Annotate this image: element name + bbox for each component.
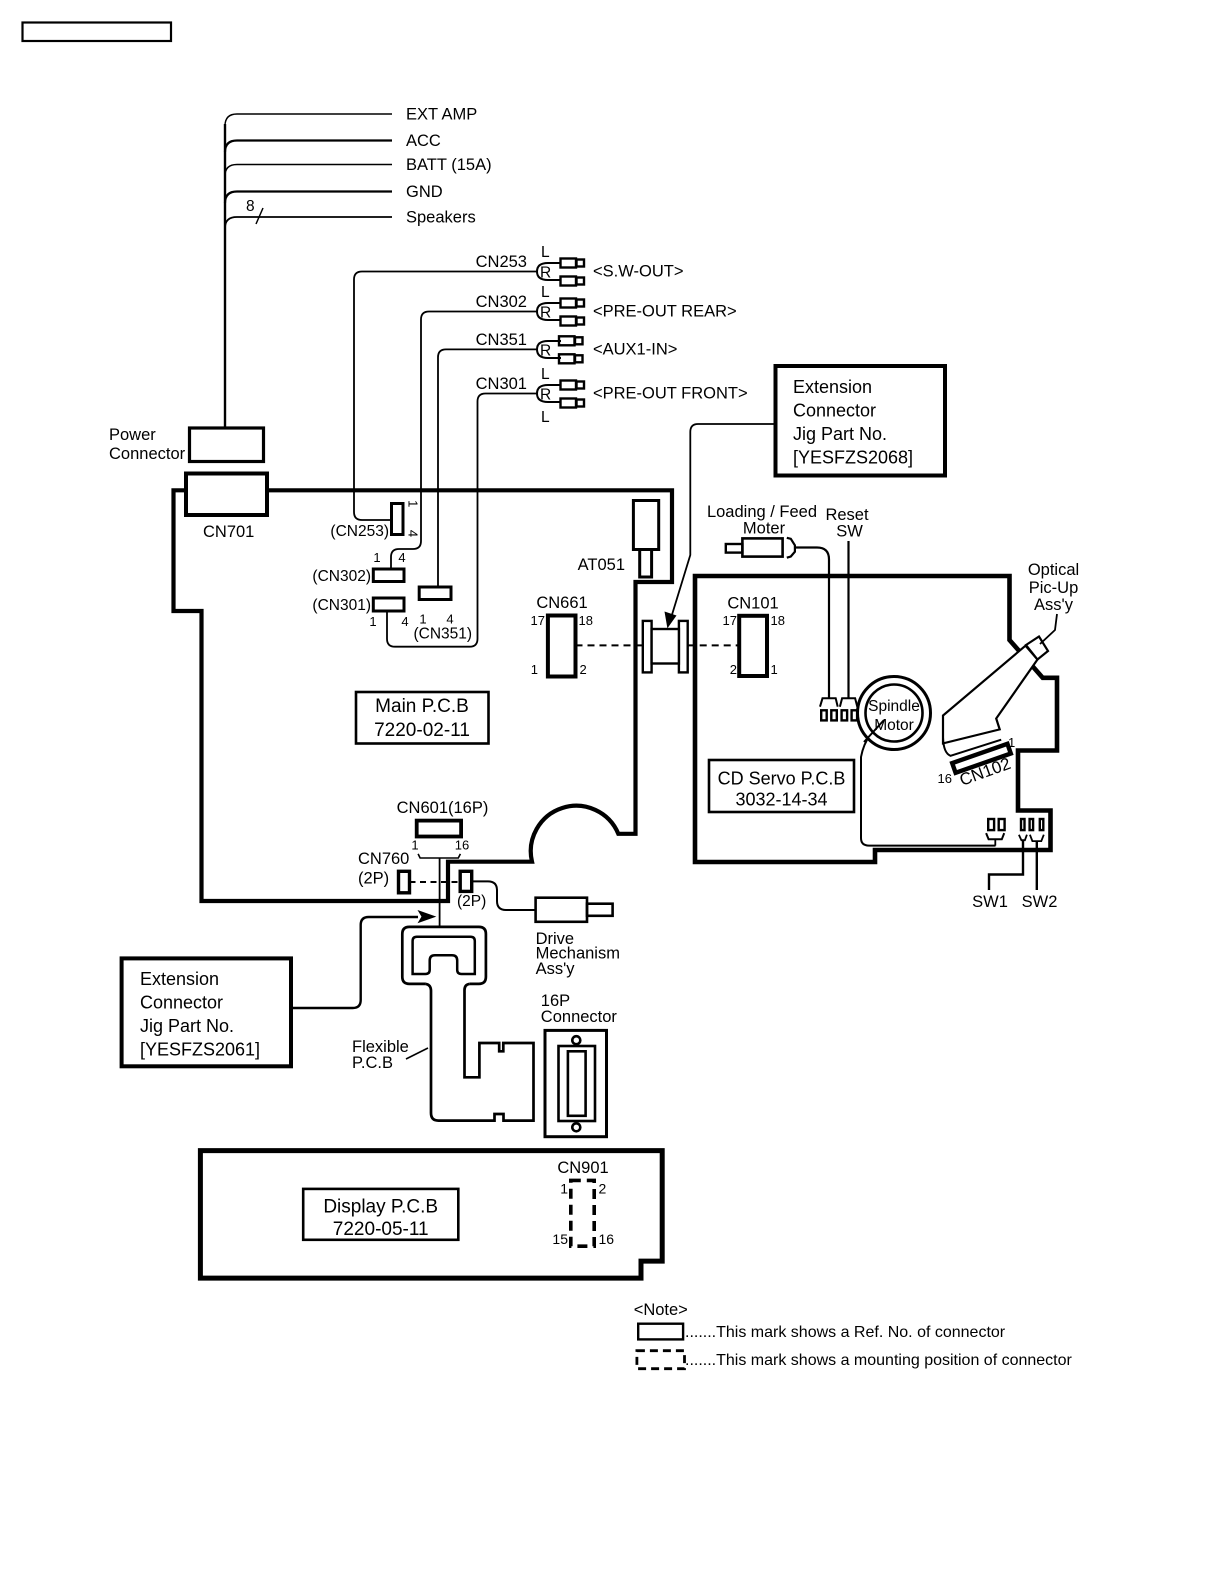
connector CN253 jacks [476, 244, 684, 286]
wire SW2 [1036, 841, 1038, 890]
connector CN102 [952, 744, 1011, 773]
svg-text:SW2: SW2 [1022, 893, 1058, 911]
svg-text:CN253: CN253 [476, 253, 527, 271]
connector CN302 jacks [476, 284, 737, 326]
svg-text:1: 1 [411, 838, 418, 853]
svg-text:R: R [540, 305, 551, 322]
svg-text:[YESFZS2068]: [YESFZS2068] [793, 448, 913, 468]
svg-text:EXT AMP: EXT AMP [406, 106, 477, 124]
svg-text:CN701: CN701 [203, 523, 254, 541]
svg-text:(CN301): (CN301) [312, 597, 371, 614]
svg-text:1: 1 [405, 500, 420, 507]
svg-text:SW1: SW1 [972, 893, 1008, 911]
svg-text:BATT (15A): BATT (15A) [406, 156, 492, 174]
connector (2P) mounting [460, 871, 472, 891]
svg-text:<PRE-OUT REAR>: <PRE-OUT REAR> [593, 303, 737, 321]
16P connector symbol [545, 1030, 607, 1136]
wire CN601 to flexible pcb [439, 858, 441, 928]
svg-text:ACC: ACC [406, 132, 441, 150]
svg-text:L: L [541, 244, 550, 261]
svg-text:Jig Part No.: Jig Part No. [793, 424, 887, 444]
connector CN101 [739, 616, 767, 676]
Display P.C.B outline [200, 1151, 662, 1279]
svg-text:<Note>: <Note> [634, 1301, 688, 1319]
svg-text:2: 2 [730, 662, 737, 677]
svg-text:.......This mark shows a mount: .......This mark shows a mounting positi… [685, 1352, 1073, 1369]
svg-text:L: L [541, 409, 550, 426]
svg-text:4: 4 [405, 530, 420, 537]
Extension Connector Jig box [YESFZS2068] [776, 366, 946, 476]
svg-text:Main P.C.B: Main P.C.B [375, 696, 469, 717]
Extension Connector Jig box [YESFZS2061] [122, 958, 291, 1066]
wire (2P) to drive mechanism [472, 881, 536, 910]
jig pointer wire with arrow (YESFZS2061) [291, 917, 418, 1008]
wire CN351 to (CN351) [438, 349, 537, 586]
wire CN302 to (CN302) [391, 312, 537, 569]
svg-text:CN661: CN661 [536, 594, 587, 612]
svg-text:AT051: AT051 [578, 556, 625, 574]
svg-text:Connector: Connector [541, 1008, 618, 1026]
spindle motor [858, 677, 931, 750]
svg-text:CN302: CN302 [476, 293, 527, 311]
svg-text:1: 1 [771, 662, 778, 677]
svg-text:2: 2 [599, 1181, 607, 1197]
wire CN253 to (CN253) [354, 272, 537, 521]
flexible pcb tail outline [426, 984, 534, 1121]
svg-text:R: R [540, 343, 551, 360]
svg-text:P.C.B: P.C.B [352, 1054, 393, 1072]
drive mechanism motor [536, 898, 587, 922]
svg-text:Ass'y: Ass'y [1034, 596, 1074, 614]
switch connector (3 squares) [1021, 819, 1025, 830]
connector CN301 jacks [476, 366, 748, 426]
svg-text:1: 1 [1008, 735, 1015, 750]
svg-text:1: 1 [419, 612, 426, 627]
wire ACC [225, 141, 392, 153]
svg-text:7220-05-11: 7220-05-11 [333, 1219, 429, 1240]
svg-text:.......This mark shows a Ref.: .......This mark shows a Ref. No. of con… [685, 1324, 1006, 1341]
svg-text:CN601(16P): CN601(16P) [397, 799, 489, 817]
svg-text:Moter: Moter [743, 520, 786, 538]
svg-text:17: 17 [723, 613, 737, 628]
svg-text:Extension: Extension [140, 969, 219, 989]
mechanism thin outline [861, 716, 996, 846]
svg-text:7220-02-11: 7220-02-11 [374, 720, 470, 741]
svg-text:Extension: Extension [793, 377, 872, 397]
svg-text:Jig Part No.: Jig Part No. [140, 1016, 234, 1036]
svg-text:18: 18 [579, 613, 593, 628]
svg-text:18: 18 [771, 613, 785, 628]
connector mounting (CN351) [419, 587, 451, 600]
pick-up ribbon [943, 738, 1001, 756]
wire loading motor down [795, 548, 829, 699]
svg-text:8: 8 [246, 198, 255, 215]
svg-text:Connector: Connector [109, 445, 186, 463]
jig pointer wire with arrow (YESFZS2068) [671, 424, 775, 618]
svg-text:3032-14-34: 3032-14-34 [735, 790, 827, 810]
svg-text:<S.W-OUT>: <S.W-OUT> [593, 263, 683, 281]
svg-text:4: 4 [401, 614, 408, 629]
svg-text:16: 16 [599, 1231, 615, 1247]
svg-text:<AUX1-IN>: <AUX1-IN> [593, 341, 677, 359]
svg-text:L: L [541, 366, 550, 383]
motor/reset connector housings (trapezoids) [820, 698, 838, 706]
svg-text:4: 4 [398, 550, 405, 565]
connector mounting (CN253) [392, 504, 404, 535]
svg-text:Connector: Connector [793, 401, 876, 421]
optical pick-up body [943, 646, 1038, 744]
svg-text:(CN351): (CN351) [414, 626, 473, 643]
svg-text:CD Servo P.C.B: CD Servo P.C.B [718, 769, 846, 789]
motor/reset connector pins (4 squares) [821, 710, 827, 720]
svg-text:(CN302): (CN302) [312, 568, 371, 585]
CD Servo P.C.B label box [709, 760, 854, 812]
svg-text:Reset: Reset [825, 506, 869, 524]
svg-text:R: R [540, 387, 551, 404]
svg-text:Ass'y: Ass'y [536, 960, 576, 978]
loading/feed motor symbol [726, 544, 743, 553]
svg-text:4: 4 [446, 612, 453, 627]
svg-text:Loading / Feed: Loading / Feed [707, 503, 817, 521]
CD Servo P.C.B outline [695, 576, 1057, 862]
svg-text:L: L [541, 284, 550, 301]
title box (empty) top-left [23, 23, 172, 42]
Main P.C.B outline [174, 490, 673, 901]
dashed mounting line CN661 to extension symbol [576, 644, 644, 646]
connector AT051 [633, 501, 658, 550]
extension connector symbol (between CN661 and CN101) [643, 621, 652, 673]
svg-text:Connector: Connector [140, 993, 223, 1013]
mechanism outline crossing spindle rings [864, 720, 884, 742]
flexible pcb head [402, 927, 486, 984]
connector mounting (CN302) [373, 569, 404, 582]
svg-text:(CN253): (CN253) [330, 523, 389, 540]
dashed line CN760 to (2P) [410, 881, 461, 883]
svg-text:1: 1 [373, 550, 380, 565]
Display P.C.B label box [303, 1189, 458, 1240]
wire EXT AMP [225, 114, 392, 126]
svg-text:17: 17 [531, 613, 545, 628]
wire SW1 [989, 840, 1023, 890]
svg-text:Power: Power [109, 426, 156, 444]
svg-text:(2P): (2P) [358, 870, 389, 888]
svg-text:16: 16 [455, 838, 469, 853]
svg-text:Spindle: Spindle [868, 698, 920, 715]
svg-text:Display P.C.B: Display P.C.B [323, 1197, 438, 1218]
svg-text:[YESFZS2061]: [YESFZS2061] [140, 1040, 260, 1060]
svg-text:1: 1 [531, 662, 538, 677]
svg-text:Pic-Up: Pic-Up [1029, 579, 1079, 597]
svg-text:2: 2 [580, 662, 587, 677]
svg-text:SW: SW [836, 523, 863, 541]
dashed mounting line extension symbol to CN101 [688, 644, 740, 646]
connector CN661 [548, 616, 576, 677]
wire Speakers [225, 217, 392, 228]
wire harness vertical trunk [224, 124, 226, 428]
svg-text:15: 15 [552, 1231, 568, 1247]
svg-text:1: 1 [369, 614, 376, 629]
flexible pcb head inner cutout [413, 937, 475, 974]
svg-text:CN101: CN101 [727, 595, 778, 613]
svg-text:Optical: Optical [1028, 561, 1079, 579]
svg-text:CN301: CN301 [476, 375, 527, 393]
connector mounting (CN301) [373, 598, 404, 611]
svg-text:(2P): (2P) [457, 893, 486, 910]
connector CN351 jacks [476, 331, 678, 363]
svg-text:16: 16 [938, 771, 952, 786]
wire reset SW down [847, 541, 849, 698]
svg-text:1: 1 [560, 1181, 568, 1197]
wire GND [225, 192, 392, 204]
svg-text:GND: GND [406, 183, 443, 201]
Main P.C.B label box [356, 692, 489, 744]
connector CN701 [186, 474, 267, 516]
wire CN301 loop to (CN301) [387, 394, 537, 647]
svg-text:R: R [540, 265, 551, 282]
wire BATT [225, 165, 392, 177]
svg-text:<PRE-OUT FRONT>: <PRE-OUT FRONT> [593, 385, 748, 403]
svg-text:CN351: CN351 [476, 331, 527, 349]
svg-text:Speakers: Speakers [406, 209, 476, 227]
svg-text:CN901: CN901 [557, 1159, 608, 1177]
optical pick-up end cap [1026, 637, 1048, 660]
power connector box [190, 428, 264, 462]
svg-text:CN760: CN760 [358, 850, 409, 868]
mech connector (2 squares) [988, 819, 994, 830]
